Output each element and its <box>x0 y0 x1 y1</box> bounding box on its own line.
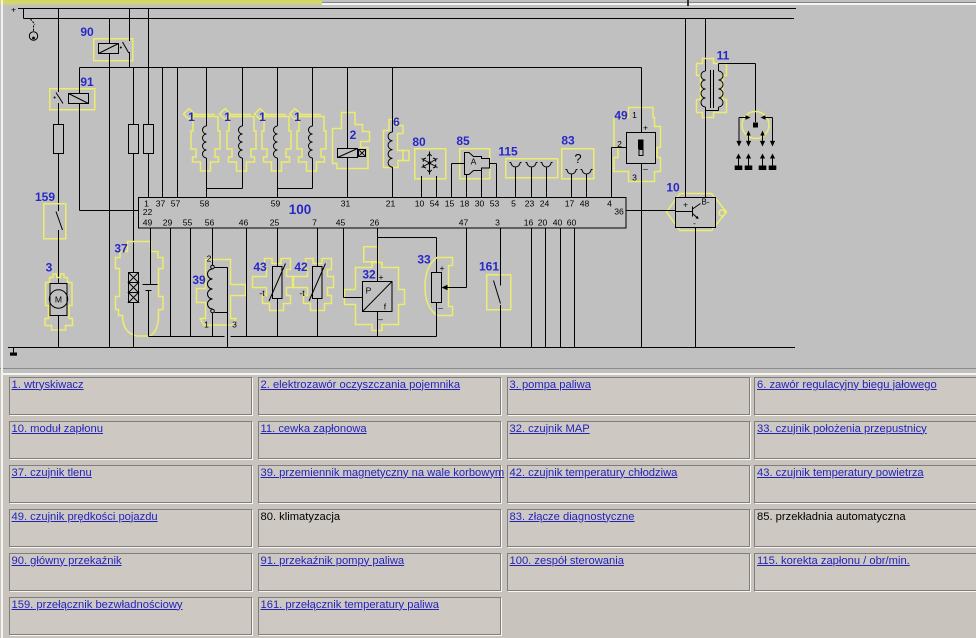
wire rail3 to fuse F2 <box>133 68 135 125</box>
svg-text:10: 10 <box>415 199 425 209</box>
wire 115 to ECU pin24 <box>546 168 548 198</box>
svg-text:60: 60 <box>567 218 577 228</box>
pin 3 label sensor 49 <box>632 173 637 183</box>
coil 11 core <box>711 70 714 108</box>
svg-text:55: 55 <box>183 218 193 228</box>
coil 11 secondary winding <box>719 71 724 107</box>
svg-text:7: 7 <box>312 218 317 228</box>
relay 91 coil <box>69 94 89 104</box>
wire switch 159 to pump <box>58 230 60 284</box>
highlight connector 115 <box>506 159 558 178</box>
relay 90 coil <box>99 44 119 54</box>
svg-text:+: + <box>378 272 383 282</box>
wire rail2 ignition feed <box>24 18 795 20</box>
minus label 32 <box>378 314 383 324</box>
svg-text:83: 83 <box>561 134 575 148</box>
wire sensor 39 pin1 down <box>212 313 214 337</box>
svg-text:33: 33 <box>417 253 431 267</box>
svg-text:5: 5 <box>511 199 516 209</box>
svg-text:48: 48 <box>580 199 590 209</box>
svg-text:115: 115 <box>498 145 518 159</box>
solenoid 2 valve <box>338 149 366 158</box>
ECU top pin numbers <box>144 199 612 209</box>
wire module 10 to ground <box>695 228 697 348</box>
sensor 49 body <box>627 133 656 164</box>
wire ECU pin49 to O2 signal <box>150 228 152 285</box>
wire fuse F1 to inertia switch 159 <box>58 154 60 212</box>
svg-text:58: 58 <box>200 199 210 209</box>
relay 91 switch blade <box>54 93 63 104</box>
wire 115 to ECU pin5 <box>515 168 517 198</box>
wire rail1 battery positive <box>18 8 796 10</box>
wire ECU pin56 to sensor 39 <box>212 228 214 265</box>
wire ECU pin20 to ground <box>545 228 547 348</box>
svg-text:42: 42 <box>294 260 308 274</box>
wire rail3 to sensor 49 pin1 <box>641 68 643 133</box>
svg-text:4: 4 <box>607 199 612 209</box>
fuel pump 3 motor <box>49 284 67 316</box>
svg-text:161: 161 <box>479 260 499 274</box>
label 11 <box>717 49 730 63</box>
wire rail3 main relay output <box>80 67 642 69</box>
switch 159 blade <box>56 212 63 231</box>
highlight relay 90 <box>94 39 133 61</box>
label 161 <box>479 260 499 274</box>
highlight sensor 42 <box>294 259 334 311</box>
spark plug c <box>759 154 767 171</box>
svg-text:45: 45 <box>336 218 346 228</box>
wire injector pair 1 to ECU <box>207 158 243 198</box>
svg-text:–: – <box>438 303 443 313</box>
fuse F1 <box>54 125 64 154</box>
spark plug a <box>735 154 743 171</box>
svg-text:1: 1 <box>294 110 301 124</box>
svg-text:53: 53 <box>490 199 500 209</box>
wire pump to ground <box>58 316 60 348</box>
svg-text:1: 1 <box>632 110 637 120</box>
ignition key switch <box>29 19 37 40</box>
wire ECU pin55 down <box>190 228 192 337</box>
svg-text:+: + <box>643 123 648 133</box>
svg-text:39: 39 <box>192 273 206 287</box>
label 83 <box>561 134 575 148</box>
svg-text:+: + <box>11 5 16 15</box>
highlight coil 11 <box>697 59 727 118</box>
svg-text:47: 47 <box>459 218 469 228</box>
svg-text:54: 54 <box>430 199 440 209</box>
label 115 <box>498 145 518 159</box>
svg-text:25: 25 <box>270 218 280 228</box>
svg-text:10: 10 <box>666 181 680 195</box>
wire throttle 33 to sensor bus <box>436 303 438 337</box>
wire sensor 43 to sensor bus <box>277 299 279 337</box>
svg-text:18: 18 <box>460 199 470 209</box>
highlight sensor 39 <box>197 260 246 326</box>
svg-text:32: 32 <box>362 268 376 282</box>
highlight sensor 32 <box>345 247 405 331</box>
fuse F3 <box>144 125 154 154</box>
wire relay90 coil top <box>109 19 111 44</box>
wire switch to fuse F1 <box>58 103 60 125</box>
injector 1 coil (c) <box>274 126 278 158</box>
connector 115 contacts <box>510 163 553 168</box>
wire 85 to ECU pin15 <box>452 164 465 198</box>
highlight A/C 80 <box>415 149 446 179</box>
wire valve 6 to ECU pin21 <box>392 167 394 197</box>
wire ECU pin25 to sensor 43 <box>277 228 279 267</box>
plus label 32 <box>378 272 383 282</box>
wire pump feed from rail1 <box>58 9 60 93</box>
relay 90 switch blade <box>120 42 129 53</box>
plus label 33 <box>439 263 444 273</box>
distributor cap contacts <box>739 115 773 141</box>
MAP sensor 32 body <box>363 282 393 312</box>
label 10 <box>666 181 680 195</box>
pin 3 label sensor 39 <box>232 320 237 330</box>
label 85 <box>456 134 470 148</box>
pin 2 label sensor 49 <box>617 139 622 149</box>
svg-text:1: 1 <box>259 110 266 124</box>
battery + terminal <box>11 5 16 15</box>
spark plug b <box>745 154 753 171</box>
svg-text:6: 6 <box>393 115 400 129</box>
wire O2 signal return <box>148 291 150 337</box>
svg-text:-: - <box>693 219 696 228</box>
label 80 <box>412 135 426 149</box>
svg-text:24: 24 <box>540 199 550 209</box>
wire O2 heater to ground <box>133 303 135 348</box>
wire rail2 to coil 11 <box>705 19 707 72</box>
wire relay90 coil ground <box>109 54 111 348</box>
svg-text:2: 2 <box>350 128 357 142</box>
svg-text:2: 2 <box>207 254 212 264</box>
svg-text:159: 159 <box>35 190 55 204</box>
sensor 39 shield loop <box>215 268 228 313</box>
wire fuse F2 to O2 heater <box>133 154 135 273</box>
svg-text:37: 37 <box>156 199 166 209</box>
svg-text:M: M <box>55 295 62 305</box>
svg-text:85: 85 <box>456 134 470 148</box>
svg-text:P: P <box>366 286 372 296</box>
pin 1 label sensor 39 <box>204 320 209 330</box>
highlight switch 159 <box>44 204 66 239</box>
highlight injector 1 (c) <box>255 109 292 172</box>
wire ECU pin40 to ground <box>560 228 562 348</box>
highlight distributor <box>742 112 769 139</box>
wire A/C to ECU pin54 <box>436 176 438 198</box>
transmission 85 symbol <box>465 153 490 175</box>
wire 5V branch to throttle <box>378 238 437 273</box>
plus label sensor 49 <box>643 123 648 133</box>
wire switch 161 to ground <box>500 305 502 348</box>
wire sensor 42 to sensor bus <box>317 299 319 337</box>
highlight switch 161 <box>487 275 511 310</box>
wire 85 to ECU pin30 <box>481 171 483 198</box>
wire ECU pin46 to sensor bus <box>246 228 248 337</box>
highlight solenoid 2 <box>333 113 370 169</box>
injector 1 coil (b) <box>239 126 243 158</box>
minus t label 43 <box>259 288 265 298</box>
svg-text:A: A <box>471 157 477 167</box>
label 1 injector (b) <box>224 110 231 124</box>
wire rail3 to injector (b) <box>242 68 244 127</box>
label 37 <box>114 242 128 256</box>
wire solenoid 2 to ECU pin31 <box>347 158 349 198</box>
label 6 <box>393 115 400 129</box>
wire relay91 coil to ECU pin22 <box>80 104 139 211</box>
svg-text:–: – <box>643 164 648 174</box>
label 3 <box>46 261 53 275</box>
sensor 42 thermistor <box>309 264 326 302</box>
svg-text:90: 90 <box>80 25 94 39</box>
svg-text:?: ? <box>574 151 581 166</box>
pin 1 label sensor 49 <box>632 110 637 120</box>
wire sensor 39 pin3 to ground <box>227 313 229 348</box>
wire sensor 49 pin2 to ECU pin4 <box>612 148 627 198</box>
sensor 39 coil <box>208 265 215 313</box>
svg-text:3: 3 <box>632 173 637 183</box>
wire 85 to ECU pin18 <box>466 175 468 198</box>
connector 83 symbol <box>566 151 593 174</box>
module 10 body <box>676 198 716 229</box>
wire rail3 to valve 6 <box>392 68 394 133</box>
svg-text:1: 1 <box>204 320 209 330</box>
svg-text:15: 15 <box>445 199 455 209</box>
wire coil 11 primary to module 10 <box>705 107 707 198</box>
svg-text:–: – <box>378 314 383 324</box>
wire ECU pin60 to ground <box>574 228 576 348</box>
wire coil 11 HT to distributor <box>719 64 756 123</box>
highlight valve 6 <box>384 120 410 168</box>
A/C snowflake symbol <box>422 152 438 175</box>
svg-text:17: 17 <box>565 199 575 209</box>
distributor rotor <box>753 123 758 128</box>
wire rail1-rail2 riser <box>23 9 25 19</box>
svg-text:40: 40 <box>553 218 563 228</box>
svg-text:29: 29 <box>163 218 173 228</box>
highlight module 10 <box>667 194 727 231</box>
O2 sensor 37 electrode plates <box>143 285 158 291</box>
svg-text:20: 20 <box>538 218 548 228</box>
svg-text:3: 3 <box>232 320 237 330</box>
svg-text:59: 59 <box>271 199 281 209</box>
highlight sensor 43 <box>253 259 293 311</box>
wire rail3 to ECU pin57 <box>177 68 179 198</box>
throttle potentiometer 33 <box>432 273 442 303</box>
label 33 <box>417 253 431 267</box>
switch 161 blade <box>494 281 501 304</box>
svg-text:+: + <box>683 200 688 210</box>
injector 1 coil (d) <box>309 126 313 158</box>
svg-text:56: 56 <box>205 218 215 228</box>
O2 sensor 37 heater <box>129 273 139 303</box>
label 39 <box>192 273 206 287</box>
svg-text:1: 1 <box>224 110 231 124</box>
minus label sensor 49 <box>643 164 648 174</box>
fuse F2 <box>129 125 139 154</box>
pin 2 label sensor 39 <box>207 254 212 264</box>
wire rail1 to fuse F3 <box>148 9 150 125</box>
highlight relay 91 <box>50 89 95 110</box>
wire rail3 to injector (d) <box>312 68 314 127</box>
wire sensor 49 pin3 to ground <box>641 164 643 348</box>
wire ECU pin16 to ground <box>531 228 533 348</box>
wire distributor to plug leads <box>736 118 775 147</box>
ECU pin 36 label <box>614 207 624 217</box>
label 42 <box>294 260 308 274</box>
sensor 43 thermistor <box>269 264 286 302</box>
wire 85 to ECU pin53 <box>490 164 497 198</box>
highlight connector 83 <box>562 149 594 179</box>
svg-text:100: 100 <box>289 202 312 217</box>
label 159 <box>35 190 55 204</box>
wire coil 11 windings common <box>706 107 719 111</box>
wire relay91 coil top <box>79 68 81 94</box>
label 32 <box>362 268 376 282</box>
label 43 <box>253 260 267 274</box>
label 100 <box>289 202 312 217</box>
wire ground rail <box>8 347 795 349</box>
svg-text:26: 26 <box>370 218 380 228</box>
highlight pump 3 <box>45 274 73 330</box>
highlight injector 1 (a) <box>184 109 221 172</box>
wire 83 to ECU pin48 <box>586 175 588 198</box>
label 2 <box>350 128 357 142</box>
ECU 100 box <box>139 198 627 229</box>
ECU pin 22 label <box>143 207 153 217</box>
svg-text:43: 43 <box>253 260 267 274</box>
svg-text:49: 49 <box>143 218 153 228</box>
wire rail3 to injector (c) <box>277 68 279 127</box>
wire MAP to sensor bus <box>377 312 379 337</box>
svg-text:31: 31 <box>341 199 351 209</box>
label 1 injector (a) <box>188 110 195 124</box>
label 90 <box>80 25 94 39</box>
ECU bottom pin numbers <box>143 218 577 228</box>
wire ECU pin36 to module 10 <box>626 210 676 212</box>
minus t label 42 <box>299 288 305 298</box>
svg-text:-t: -t <box>299 288 305 298</box>
wire rail3 to injector (a) <box>206 68 208 127</box>
ground symbol <box>10 348 17 356</box>
svg-text:1: 1 <box>188 110 195 124</box>
svg-text:30: 30 <box>475 199 485 209</box>
svg-text:49: 49 <box>614 109 628 123</box>
highlight injector 1 (b) <box>220 109 257 172</box>
wire ECU pin29 down <box>170 228 172 337</box>
svg-text:B-: B- <box>702 198 710 207</box>
wire ECU pin45 to MAP <box>344 228 363 298</box>
wire ECU pin7 to sensor 42 <box>317 228 319 267</box>
svg-text:91: 91 <box>80 75 94 89</box>
wire ECU pin26 to MAP plus <box>377 228 379 282</box>
highlight transmission 85 <box>460 149 490 179</box>
wire relay90 switch to rail3 <box>129 52 131 68</box>
svg-text:57: 57 <box>171 199 181 209</box>
highlight sensor 33 <box>425 258 453 316</box>
svg-text:80: 80 <box>412 135 426 149</box>
highlight sensor 49 <box>614 108 661 182</box>
wire rail2 to module 10 plus <box>685 19 687 198</box>
highlight injector 1 (d) <box>290 109 327 172</box>
wire rail3 to solenoid 2 <box>347 68 349 149</box>
svg-text:37: 37 <box>114 242 128 256</box>
svg-text:-t: -t <box>259 288 265 298</box>
label 49 <box>614 109 628 123</box>
minus label 33 <box>438 303 443 313</box>
svg-text:22: 22 <box>143 207 153 217</box>
svg-text:21: 21 <box>386 199 396 209</box>
wire ECU pin47 to wiper <box>442 228 467 290</box>
wire injector pair 2 to ECU <box>278 158 313 198</box>
highlight sensor 37 <box>116 242 164 337</box>
svg-text:+: + <box>439 263 444 273</box>
wire sensor ground bus <box>149 336 437 338</box>
wire A/C to ECU pin10 <box>421 176 423 198</box>
wire ECU pin3 to switch 161 <box>500 228 502 286</box>
svg-text:23: 23 <box>525 199 535 209</box>
wire fuse F3 to ECU pin1 <box>148 154 150 198</box>
coil 11 primary winding <box>701 71 705 107</box>
wire relay90 switch feed <box>129 9 131 42</box>
label 91 <box>80 75 94 89</box>
wire rail3 to ECU pin37 <box>162 68 164 198</box>
svg-text:3: 3 <box>46 261 53 275</box>
svg-text:3: 3 <box>495 218 500 228</box>
valve 6 coil <box>388 132 392 167</box>
label 1 injector (c) <box>259 110 266 124</box>
wire 83 to ECU pin17 <box>571 175 573 198</box>
injector 1 coil (a) <box>203 126 207 158</box>
spark plug d <box>769 154 777 171</box>
svg-text:46: 46 <box>239 218 249 228</box>
svg-text:11: 11 <box>717 49 730 63</box>
svg-text:36: 36 <box>614 207 624 217</box>
wire 115 to ECU pin23 <box>531 168 533 198</box>
label 1 injector (d) <box>294 110 301 124</box>
svg-text:16: 16 <box>524 218 534 228</box>
